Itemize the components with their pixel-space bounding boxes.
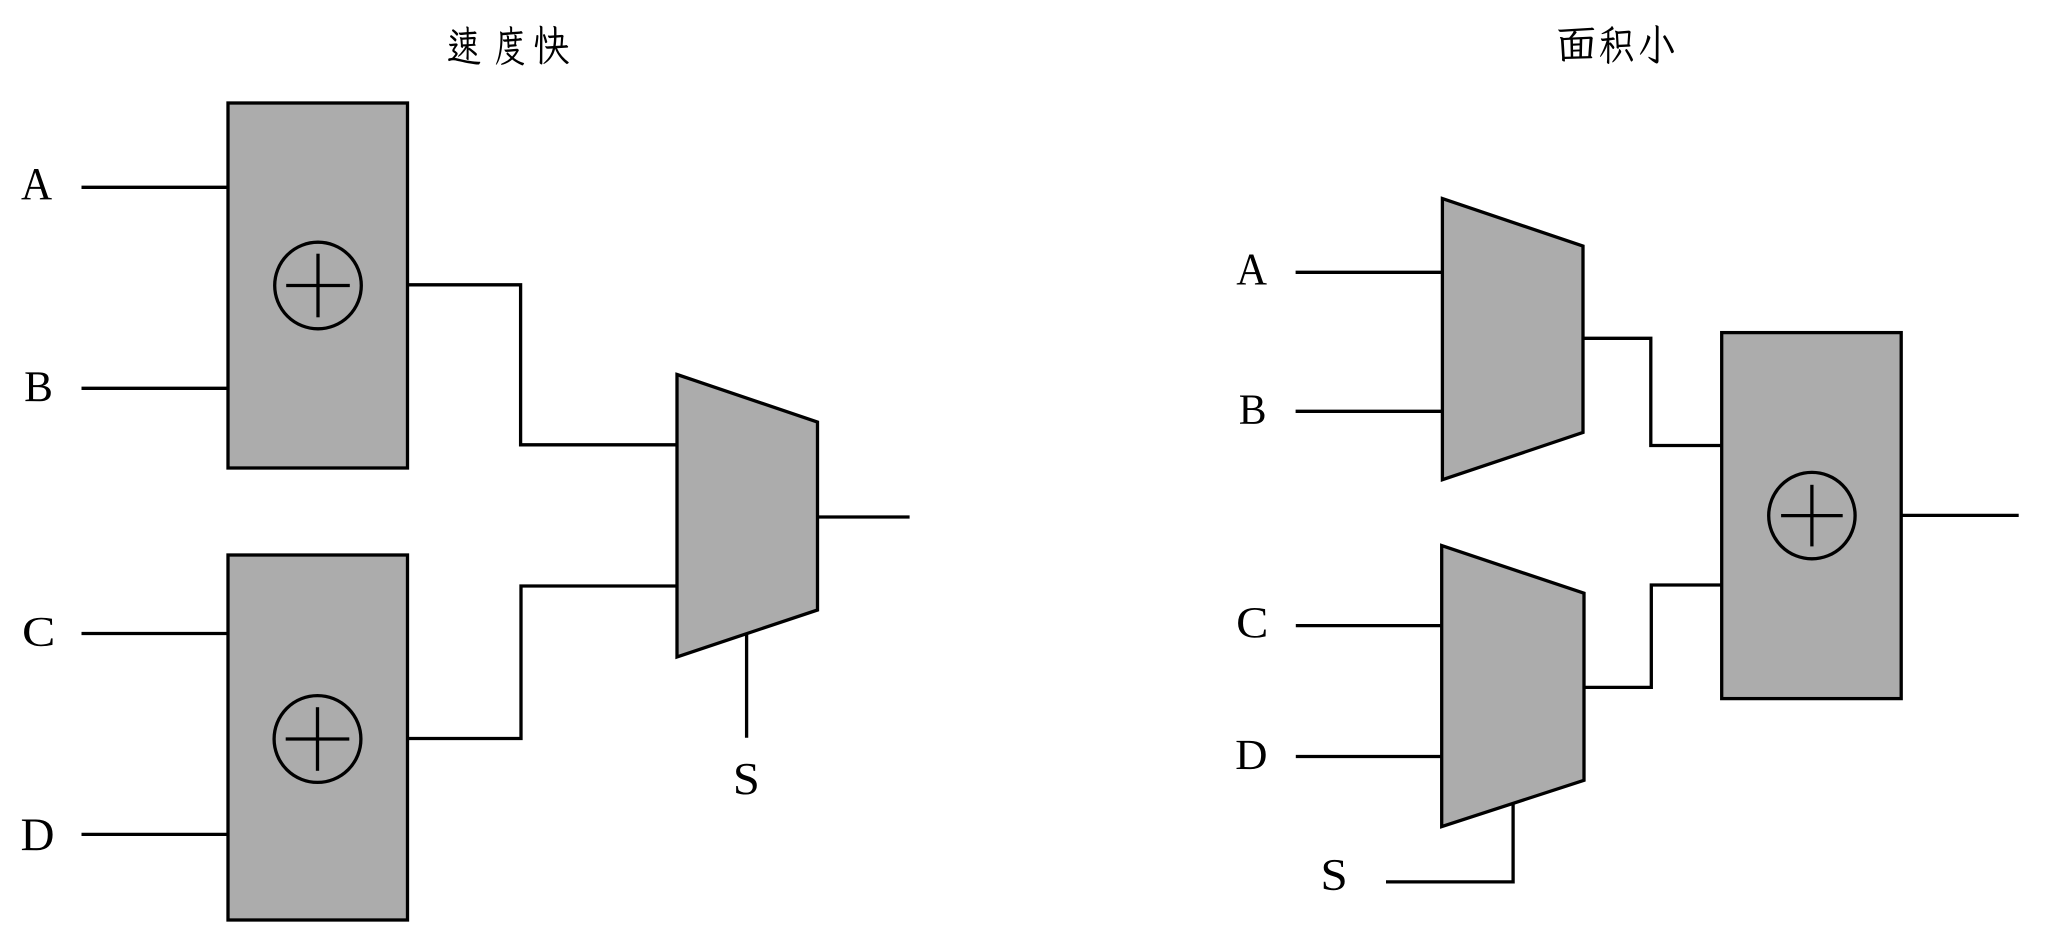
input label A — [21, 169, 51, 199]
wire: input B to mux M2 — [1296, 410, 1443, 413]
mux M2 (A/B) — [1442, 199, 1583, 480]
wire: input B to adder U1 — [82, 387, 229, 390]
wire: mux M3 select S (right) — [1386, 803, 1513, 882]
title: 面积小 (small area) — [1558, 25, 1674, 64]
input label B (right) — [1240, 395, 1264, 423]
wire: mux M1 output — [818, 515, 910, 518]
wire: adder U3 output — [1901, 514, 2019, 517]
input label D (right) — [1236, 741, 1265, 769]
wire: input D to adder U2 — [82, 833, 229, 836]
select label S (right) — [1324, 860, 1345, 890]
input label A (right) — [1237, 255, 1267, 285]
input label D — [22, 820, 53, 851]
select label S (left) — [736, 764, 757, 795]
wire: input A to mux M2 — [1296, 271, 1443, 274]
input label C (right) — [1238, 608, 1266, 638]
adder U1 (A+B) — [228, 103, 408, 468]
wire: mux M3 output to adder U3 input 1 — [1584, 585, 1722, 687]
mux M3 (C/D) — [1442, 546, 1584, 827]
input label B — [25, 372, 50, 401]
wire: input C to adder U2 — [82, 632, 229, 635]
adder U2 (C+D) — [228, 555, 408, 920]
input label C — [24, 618, 53, 646]
wire: mux M2 output to adder U3 input 0 — [1583, 338, 1722, 445]
adder U3 — [1722, 333, 1902, 699]
mux M1 — [677, 375, 818, 657]
wire: input A to adder U1 — [82, 186, 229, 189]
wire: input C to mux M3 — [1296, 624, 1442, 627]
wire: adder U2 output to mux M1 input 1 — [408, 586, 678, 739]
wire: mux M1 select S — [745, 634, 748, 738]
wire: adder U1 output to mux M1 input 0 — [408, 285, 678, 445]
wire: input D to mux M3 — [1296, 755, 1442, 758]
title: 速度快 (fast speed) — [448, 26, 569, 66]
